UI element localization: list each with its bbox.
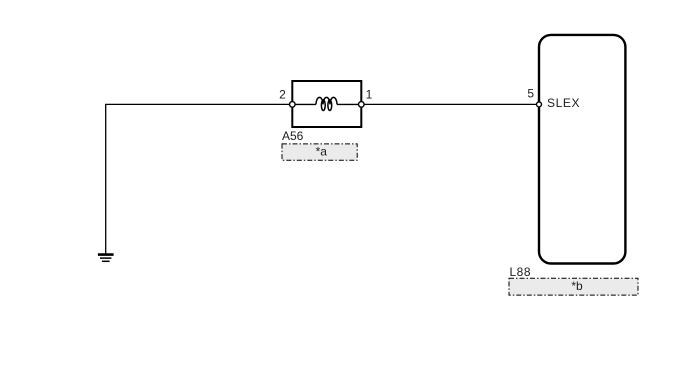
svg-text:1: 1	[366, 88, 373, 102]
svg-text:*a: *a	[316, 144, 328, 158]
svg-text:SLEX: SLEX	[547, 96, 580, 110]
svg-text:*b: *b	[571, 279, 583, 293]
svg-text:A56: A56	[282, 129, 304, 143]
svg-text:2: 2	[279, 88, 286, 102]
svg-text:L88: L88	[510, 265, 532, 279]
svg-text:5: 5	[527, 87, 534, 101]
